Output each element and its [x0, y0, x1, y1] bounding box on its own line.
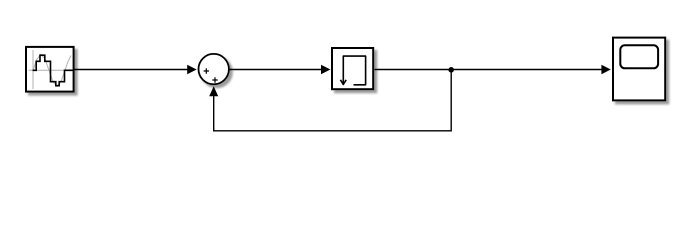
- wire: delay to scope: [375, 65, 611, 74]
- sum junction: [199, 54, 229, 84]
- block: unit delay: [332, 48, 373, 89]
- block: discrete sine wave source: [26, 47, 74, 92]
- wire: sum to delay: [229, 65, 330, 74]
- wire: feedback loop: [209, 70, 451, 131]
- node: branch junction dot: [448, 67, 454, 73]
- wire: source to sum: [75, 65, 197, 74]
- block: scope: [613, 38, 665, 101]
